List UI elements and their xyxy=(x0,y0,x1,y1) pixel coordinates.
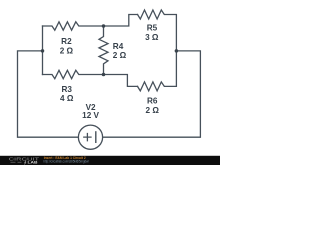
voltage source V2 plus sign xyxy=(84,134,91,141)
svg-text:LAB: LAB xyxy=(28,161,38,165)
watermark logo dashes xyxy=(11,161,22,163)
resistor R6 xyxy=(138,51,177,91)
svg-text:R2: R2 xyxy=(61,37,72,46)
svg-text:2 Ω: 2 Ω xyxy=(113,51,127,60)
svg-text:2 Ω: 2 Ω xyxy=(145,106,159,115)
node: R2/R4 junction B xyxy=(102,24,106,28)
svg-text:4 Ω: 4 Ω xyxy=(60,94,74,103)
watermark bar xyxy=(0,156,220,165)
watermark logo bolt xyxy=(24,161,26,165)
wire: node B to R5 left lead xyxy=(104,15,138,27)
resistor R4 xyxy=(99,26,108,75)
svg-text:R5: R5 xyxy=(147,23,158,32)
svg-text:12 V: 12 V xyxy=(82,111,99,120)
svg-text:R3: R3 xyxy=(61,85,72,94)
svg-text:3 Ω: 3 Ω xyxy=(145,33,159,42)
voltage source V2 minus bar xyxy=(95,132,97,142)
svg-text:R6: R6 xyxy=(147,97,158,106)
resistor R5 xyxy=(138,10,177,51)
node: R5/R6 junction C xyxy=(175,49,179,53)
node: left junction xyxy=(41,49,45,53)
resistor R3 xyxy=(43,70,104,78)
svg-text:http://circuitlab.com/c8r5kt6/: http://circuitlab.com/c8r5kt6/5mg6w/ xyxy=(44,160,90,164)
resistor R2 xyxy=(43,22,104,30)
wire: left branch from junction to battery positive terminal xyxy=(18,51,79,137)
wire: left vertical between R2 and R3 xyxy=(42,26,44,75)
wire: node D step down to R6 xyxy=(104,75,138,87)
voltage source V2 circle xyxy=(78,125,102,149)
svg-text:2 Ω: 2 Ω xyxy=(60,46,74,55)
svg-text:R4: R4 xyxy=(113,42,124,51)
wire: right rail from junction C to battery negative terminal xyxy=(103,51,201,137)
node: R4/R3/R6 junction D xyxy=(102,73,106,77)
